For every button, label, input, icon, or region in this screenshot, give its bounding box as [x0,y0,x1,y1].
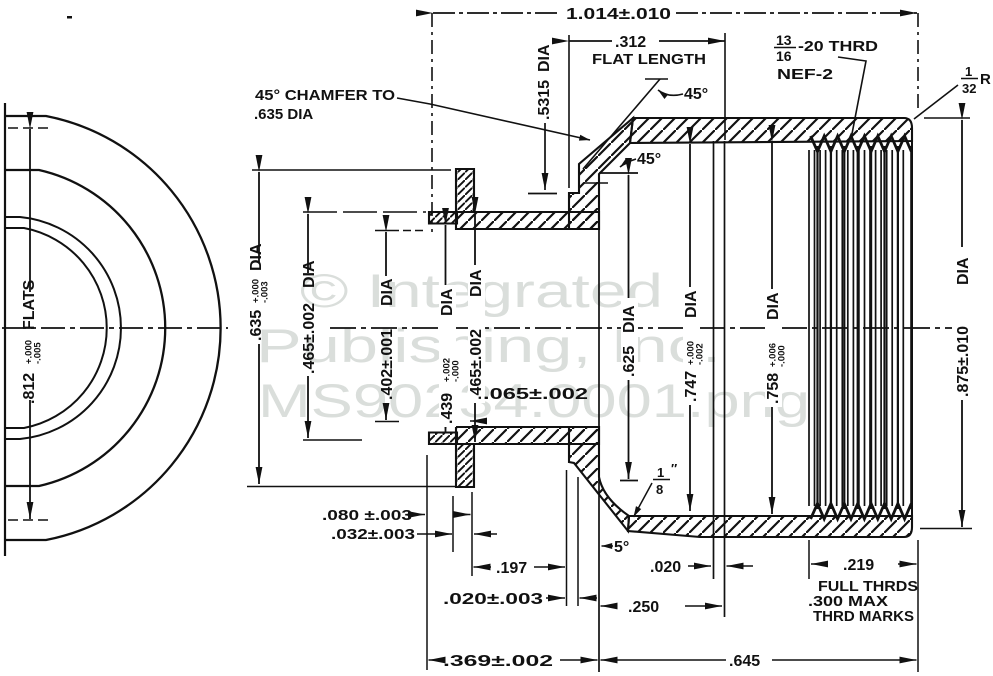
svg-text:-.005: -.005 [33,342,44,364]
label .758 +.006/-.000 DIA [765,289,788,407]
left view circle 4 (bore) [5,228,107,428]
extension line x=472 (flange face) [471,492,473,576]
extension line x=566.5 (body face) [566,470,568,606]
leader arc upper 45 [658,90,683,95]
45-deg construction line [583,79,660,169]
dim .312 extension lines [568,35,570,188]
lower thread profile zigzag [811,504,912,520]
svg-text:-.000: -.000 [777,345,788,367]
dim .625 dia: extension bars [599,172,638,174]
extension line x=918 (right face, bottom) [917,540,919,672]
dim .465 dia (left): extension lines [303,211,426,213]
svg-text:.312: .312 [615,34,646,51]
svg-text:THRD MARKS: THRD MARKS [813,608,914,625]
svg-text:.635 DIA: .635 DIA [254,106,313,123]
svg-text:.197: .197 [496,560,527,577]
label .635 +.000/-.003 DIA [248,243,271,341]
dim .875 dia: dimension line [961,120,963,247]
svg-text:-20 THRD: -20 THRD [798,38,878,55]
label .812 +.000/-.005 FLATS [21,279,44,404]
dim 1.014 extension lines [431,13,433,232]
dim .758 dia: dimension line [771,142,773,514]
dim .625 dia: dimension line [628,175,630,479]
extension line x=427 (tube end) [426,455,428,670]
svg-text:.020±.003: .020±.003 [443,591,543,608]
svg-text:DIA: DIA [536,44,553,72]
svg-text:.5315: .5315 [536,80,553,120]
body right face [911,128,913,528]
svg-text:DIA: DIA [955,257,972,285]
dim .635 dia: extension lines [252,169,451,171]
label .5315 DIA [536,44,553,120]
svg-text:.635: .635 [248,310,265,341]
svg-text:.465±.002: .465±.002 [301,303,318,374]
dim .219 [811,563,828,565]
svg-text:.080 ±.003: .080 ±.003 [322,507,412,524]
body left face [568,193,570,212]
bore face edge x=599 [598,174,600,672]
svg-text:R: R [980,71,991,88]
45-deg horizontal stub (lower) [584,182,608,184]
dim .747 dia: dimension line [689,144,691,511]
svg-text:DIA: DIA [765,292,782,320]
left view circle 2 (.635 dia) [5,170,165,486]
dim 1.014 +-.010: dimension line [433,12,560,14]
extension line x=578 (chamfer start) [577,477,579,606]
dim .312: dimension line [569,40,612,42]
svg-text:16: 16 [776,48,792,64]
thread marks (vertical lines) [809,150,903,506]
svg-text:13: 13 [776,32,792,48]
tube lower wall (right) [456,427,599,444]
extension line x=453 (bore step) [452,496,454,552]
svg-text:32: 32 [962,81,976,96]
note .065 +-.002 with leader [470,420,486,422]
label .465 +-.002 DIA (right) [468,265,485,403]
1/32 R leader [914,85,958,119]
dim .5315: arrow down to surface [544,123,546,190]
label 5 deg with arrow [602,545,614,547]
dim .645 [601,659,615,661]
svg-text:-.000: -.000 [451,360,462,382]
svg-text:.020: .020 [650,559,681,576]
dim .465 dia (left): dimension line [307,214,309,273]
label .747 +.000/-.002 DIA [683,287,706,405]
left view flat edge [4,103,6,556]
svg-text:45°: 45° [684,86,708,103]
1/8 leader [634,483,653,517]
dim .465 dia (right): dimension line [474,214,476,442]
svg-text:FLAT LENGTH: FLAT LENGTH [592,51,706,68]
body upper 45-deg chamfer band and corner block [569,118,633,229]
section horizontal centerline [330,327,952,329]
svg-text:DIA: DIA [683,290,700,318]
svg-text:45°: 45° [637,151,661,168]
svg-text:DIA: DIA [301,260,318,288]
label .439 +.002/-.000 DIA [439,285,462,427]
label .875 +-.010 DIA [955,257,972,397]
dim .5315: extension bar [528,193,557,195]
body upper band (thread wall) [630,118,912,143]
45-deg horizontal stub (upper) [645,78,668,80]
svg-text:45° CHAMFER TO: 45° CHAMFER TO [255,87,395,104]
dim .197 [474,566,492,568]
svg-text:.402±.001: .402±.001 [379,329,396,400]
dim .812 FLATS: extension dashes [8,127,48,129]
dim .250 [601,605,615,607]
svg-text:.065±.002: .065±.002 [483,386,588,403]
body lower band (thread wall, 5-deg taper) [628,516,912,537]
dim .635 dia: dimension line [258,172,260,262]
svg-text:-.003: -.003 [260,281,271,303]
label .465 +-.002 DIA (left) [301,260,318,374]
svg-text:NEF-2: NEF-2 [777,66,833,83]
svg-text:.812: .812 [21,373,38,404]
left view outer circle with flats (.812) [5,116,221,540]
internal step edge x=724.5 [724,141,726,617]
svg-text:FLATS: FLATS [21,279,38,330]
thread crest lines (heavier) [818,146,912,509]
thread leader line [838,57,866,139]
svg-text:-.002: -.002 [695,343,706,365]
stray mark top left [67,16,72,19]
body lower chamfer band and corner block [569,427,629,531]
svg-text:DIA: DIA [439,288,456,316]
left view circle 3 [5,217,121,439]
svg-text:.369±.002: .369±.002 [443,653,553,670]
internal 45-deg chamfer edge (.625 to bore) [600,143,630,173]
dim .439 dia: dimension line [445,225,447,432]
svg-text:8: 8 [656,482,663,497]
svg-text:DIA: DIA [379,278,396,306]
dim .369 +-.002 [429,659,441,661]
tube upper wall (left, .439 bore) [429,212,457,224]
svg-text:.219: .219 [843,557,874,574]
svg-text:1: 1 [965,64,972,79]
label .402 +-.001 DIA [379,278,396,400]
dim .219: extension line x=809 [808,540,810,579]
label .625 DIA [621,298,638,380]
svg-text:DIA: DIA [248,243,265,271]
tube lower wall (left) [429,433,457,445]
tube upper wall (right, .402 bore) [456,212,599,229]
dim .402 dia: extension bars [375,230,399,232]
flange lower [456,444,474,487]
flange upper (.635 dia) [456,169,474,212]
dim .875 dia: extension lines [924,117,970,119]
svg-text:.758: .758 [765,373,782,404]
svg-text:.625: .625 [621,346,638,377]
chamfer leader line [397,98,590,140]
dim .812 FLATS: dimension line with arrows [29,129,31,292]
svg-text:″: ″ [671,461,677,476]
svg-text:.747: .747 [683,371,700,402]
svg-text:1: 1 [657,465,664,480]
svg-text:DIA: DIA [468,269,485,297]
dim .402 dia: dimension line [385,232,387,276]
svg-text:.439: .439 [439,393,456,424]
left view horizontal centerline [2,327,228,329]
svg-text:DIA: DIA [621,305,638,333]
upper thread profile zigzag [811,136,912,152]
svg-text:1.014±.010: 1.014±.010 [566,6,671,23]
leader arc lower 45 [620,159,636,167]
svg-text:.032±.003: .032±.003 [331,526,415,543]
svg-text:Publishing, Inc.: Publishing, Inc. [256,319,721,372]
svg-text:.875±.010: .875±.010 [955,326,972,397]
internal step edge x=713 [713,141,715,579]
svg-text:.645: .645 [729,653,760,670]
svg-text:.250: .250 [628,599,659,616]
svg-text:5°: 5° [614,539,629,556]
